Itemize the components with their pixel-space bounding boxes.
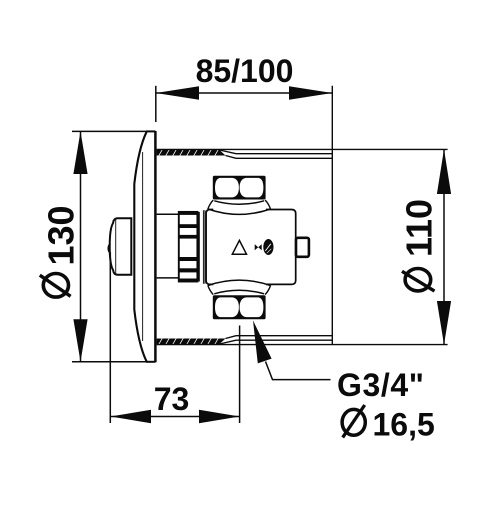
valve body right section xyxy=(266,210,296,285)
svg-text:73: 73 xyxy=(154,381,190,417)
svg-text:130: 130 xyxy=(41,205,82,265)
wall step lines top xyxy=(220,150,237,158)
svg-text:85/100: 85/100 xyxy=(196,53,294,89)
knurled adjuster ring xyxy=(179,212,198,282)
hex nut top xyxy=(213,176,266,200)
triangle symbol xyxy=(232,240,246,254)
dimension 85/100 xyxy=(155,86,157,122)
push button face line xyxy=(115,220,117,274)
valve body left section xyxy=(206,210,213,285)
hex nut bottom xyxy=(213,295,266,319)
double line between ring and body xyxy=(202,210,204,284)
leader arrow G3/4 xyxy=(253,320,272,363)
dimension 73 xyxy=(109,253,111,424)
dimension D110 xyxy=(157,148,448,150)
wall section hatched band bottom xyxy=(157,338,226,345)
flush plate right edge xyxy=(154,131,157,362)
flush plate inner edge line xyxy=(142,152,144,341)
svg-text:16,5: 16,5 xyxy=(373,407,435,443)
wall step lines bottom xyxy=(220,336,237,344)
push button nub xyxy=(108,244,110,253)
box flange double line top xyxy=(236,153,332,155)
valve stem section xyxy=(157,213,179,215)
side tab on body xyxy=(296,238,309,257)
box right edge / 85-100 right extension line xyxy=(331,86,333,345)
flow icon ellipse xyxy=(263,239,273,255)
wall section hatched band top xyxy=(157,149,226,156)
push button xyxy=(110,218,132,274)
top neck flare xyxy=(214,201,264,205)
flush plate outline xyxy=(134,132,146,361)
bottom neck flare xyxy=(214,290,264,294)
svg-text:110: 110 xyxy=(398,199,439,257)
flow icon bowtie xyxy=(255,244,262,250)
dimension D130 xyxy=(72,130,149,132)
box flange double line bottom xyxy=(236,339,332,341)
svg-text:G3/4": G3/4" xyxy=(337,367,425,403)
